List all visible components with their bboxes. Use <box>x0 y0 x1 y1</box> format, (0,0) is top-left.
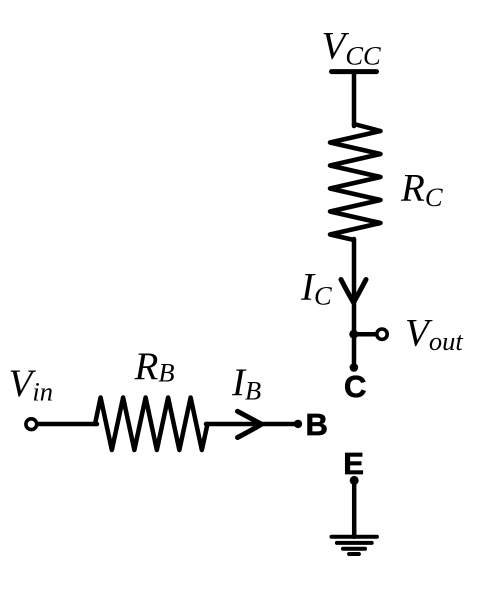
svg-text:RC: RC <box>400 166 443 212</box>
open terminal Vout <box>377 329 387 339</box>
current arrow IC <box>341 280 366 303</box>
wire RB to base pin <box>206 422 298 427</box>
wire RC to collector junction <box>352 239 357 334</box>
svg-text:Vout: Vout <box>405 311 463 356</box>
svg-text:RB: RB <box>134 345 175 388</box>
base pin dot <box>294 420 302 428</box>
resistor RB <box>95 398 208 451</box>
svg-text:IB: IB <box>231 361 261 405</box>
wire Vin terminal to resistor RB <box>38 422 97 427</box>
current arrow IB <box>238 411 262 437</box>
svg-text:VCC: VCC <box>322 25 382 71</box>
svg-text:E: E <box>343 446 364 481</box>
svg-text:Vin: Vin <box>9 362 53 407</box>
emitter pin dot <box>350 476 359 485</box>
collector pin dot <box>350 363 359 372</box>
Vcc power rail bar <box>332 69 377 74</box>
wire emitter pin to ground <box>352 481 357 537</box>
junction dot at Vout tap <box>349 330 358 339</box>
wire Vcc bar to resistor RC <box>352 72 357 126</box>
svg-text:C: C <box>344 369 366 404</box>
ground symbol <box>332 537 377 554</box>
svg-text:IC: IC <box>300 266 332 311</box>
wire junction to Vout terminal <box>354 332 375 337</box>
svg-text:B: B <box>306 407 328 442</box>
open terminal Vin <box>26 419 37 430</box>
wire junction down to collector pin <box>352 334 357 367</box>
resistor RC <box>330 124 381 240</box>
